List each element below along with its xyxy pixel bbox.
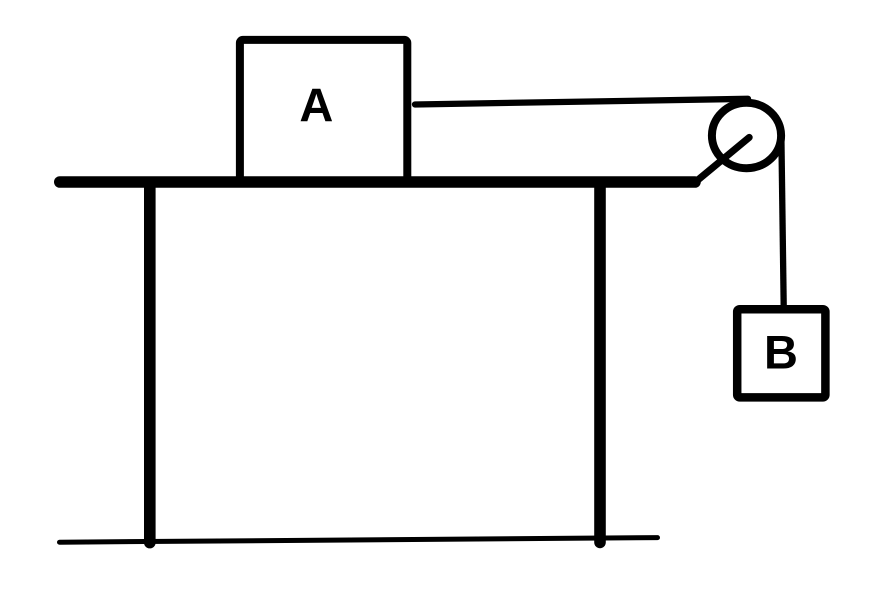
block B outline	[737, 309, 825, 397]
table right leg	[594, 184, 606, 542]
svg-text:A: A	[299, 78, 333, 131]
pulley wheel	[712, 103, 781, 168]
string from block A to pulley	[415, 99, 748, 105]
svg-text:B: B	[764, 325, 798, 378]
table left leg	[144, 184, 156, 543]
ground / floor line	[60, 538, 658, 543]
pulley support arm from table edge to pulley axle	[696, 137, 749, 181]
string from pulley down to block B	[781, 131, 783, 306]
block A outline	[240, 40, 407, 182]
table top surface	[60, 176, 695, 188]
